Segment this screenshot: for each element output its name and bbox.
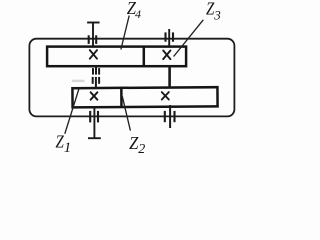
- leader line of label Z2: [122, 96, 130, 130]
- output shaft end cap: [88, 137, 101, 139]
- inner bearing of input shaft: [93, 68, 99, 75]
- output shaft (bottom, vertical): [93, 107, 95, 139]
- bearing of intermediate shaft in housing bottom wall: [165, 111, 175, 122]
- bearing of intermediate shaft in housing top wall: [166, 32, 174, 41]
- housing (gearbox case, rounded rectangle): [29, 39, 234, 117]
- intermediate shaft lower stub: [169, 105, 171, 128]
- fixed-joint cross of gear Z2 on intermediate shaft: [162, 92, 169, 99]
- inner bearing of output shaft: [93, 77, 99, 84]
- bearing of input shaft in housing top wall: [89, 35, 97, 44]
- input shaft (top, vertical): [92, 22, 94, 46]
- gear Z1 / Z2 block (lower rectangle): [72, 87, 217, 107]
- leader line of label Z4: [121, 16, 129, 50]
- input shaft end cap: [87, 22, 100, 24]
- mesh divider between Z4 and Z3: [143, 47, 146, 67]
- input shaft lower stub between stages: [95, 66, 97, 74]
- fixed-joint cross of gear Z3 on intermediate shaft: [163, 51, 170, 60]
- leader line of label Z1: [65, 89, 79, 134]
- intermediate shaft segment between gear blocks: [168, 66, 171, 88]
- output shaft upper stub between stages: [95, 77, 97, 88]
- fixed-joint cross of gear Z4 on input shaft: [90, 50, 97, 59]
- faint inner wall line: [72, 80, 85, 82]
- intermediate shaft upper stub: [168, 29, 170, 47]
- fixed-joint cross of gear Z1 on output shaft: [91, 92, 98, 99]
- gear Z4 / Z3 block (upper rectangle): [47, 47, 186, 67]
- leader line of label Z3: [174, 20, 204, 57]
- bearing of output shaft in housing bottom wall: [90, 111, 98, 123]
- mesh divider between Z1 and Z2: [120, 88, 123, 107]
